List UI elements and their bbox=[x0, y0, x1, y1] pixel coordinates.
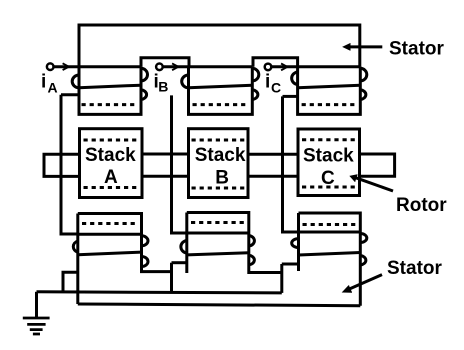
svg-text:C: C bbox=[321, 168, 335, 189]
svg-text:Stack: Stack bbox=[195, 145, 246, 166]
svg-text:A: A bbox=[104, 167, 118, 188]
svg-text:i: i bbox=[41, 72, 46, 93]
svg-text:B: B bbox=[158, 79, 168, 95]
svg-text:Rotor: Rotor bbox=[396, 195, 447, 216]
svg-text:B: B bbox=[215, 168, 229, 189]
svg-text:Stack: Stack bbox=[303, 146, 354, 167]
svg-text:Stack: Stack bbox=[85, 145, 136, 166]
svg-text:Stator: Stator bbox=[389, 39, 445, 60]
svg-text:A: A bbox=[48, 80, 58, 96]
svg-text:Stator: Stator bbox=[387, 258, 443, 279]
svg-text:i: i bbox=[265, 72, 270, 93]
svg-text:C: C bbox=[271, 80, 281, 96]
